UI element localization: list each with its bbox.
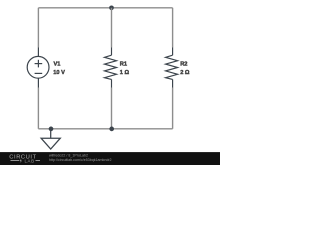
wire bottom horizontal — [38, 128, 172, 130]
wire top horizontal — [38, 7, 172, 9]
ground — [41, 129, 60, 149]
watermark bar — [0, 152, 220, 165]
wire R1 branch lower — [111, 88, 113, 129]
wire left vertical upper — [37, 8, 39, 48]
node A junction dot top — [109, 5, 114, 10]
node B junction dot bottom R1 — [109, 127, 114, 132]
resistor R1 — [105, 48, 117, 88]
wire left vertical lower — [37, 88, 39, 129]
wire R2 branch upper — [172, 8, 174, 48]
svg-text:2 Ω: 2 Ω — [180, 70, 190, 76]
svg-text:R1: R1 — [120, 62, 127, 68]
svg-text:LAB: LAB — [25, 159, 35, 164]
wire R2 branch lower — [172, 88, 174, 129]
svg-text:R2: R2 — [180, 62, 187, 68]
svg-text:1 Ω: 1 Ω — [120, 70, 130, 76]
resistor R2 — [166, 48, 178, 88]
svg-text:V1: V1 — [54, 62, 61, 68]
watermark logo CIRCUIT LAB — [9, 154, 40, 163]
svg-text:10 V: 10 V — [53, 70, 65, 76]
svg-text:http://circuitlab.com/c/e53bqk: http://circuitlab.com/c/e53bqk1amkndr2 — [49, 158, 112, 162]
node ground junction dot — [49, 127, 54, 132]
wire R1 branch upper — [111, 8, 113, 48]
voltage source V1 — [27, 48, 49, 88]
